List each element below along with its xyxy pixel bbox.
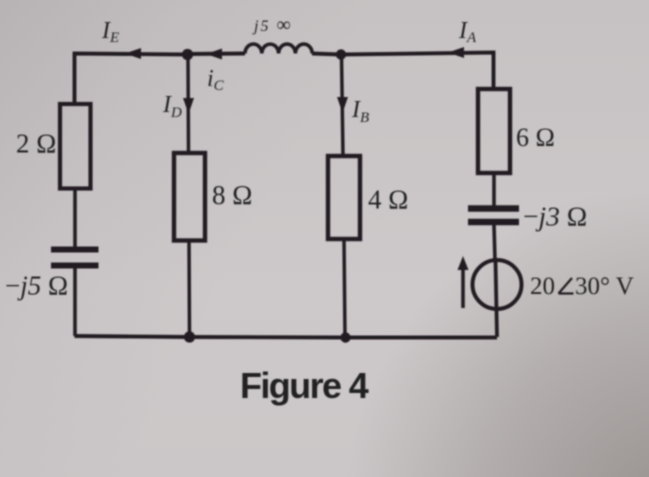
svg-text:Figure 4: Figure 4 [240,365,369,406]
svg-text:30° V: 30° V [575,273,634,300]
node: bottom node of 4-ohm branch [340,332,350,342]
source reference arrow (points up, left of source) [461,268,465,308]
wire: 2ohm to capacitor -j5 [73,189,77,248]
capacitor -j5 (left branch) [51,247,99,253]
svg-text:2 Ω: 2 Ω [16,129,56,159]
svg-text:8 Ω: 8 Ω [212,180,252,210]
node: top node of 8-ohm branch [182,49,193,60]
wire: through-source conductor [496,261,498,337]
wire: bottom rail [75,336,498,338]
svg-text:IB: IB [351,97,369,126]
resistor 6ohm (right branch) [478,89,510,173]
wire: 4-ohm branch top (node B down to resistor) [342,55,344,156]
resistor 4ohm [328,156,360,239]
resistor 2ohm (left branch) [60,104,91,189]
capacitor -j3 (right branch) [468,205,519,211]
current arrow I_E (points left on top rail) [125,48,141,59]
svg-text:−j5 Ω: −j5 Ω [5,271,68,301]
current arrow I_B (points down) [337,97,348,113]
wire: 8ohm resistor to bottom rail [187,241,191,338]
current arrow I_D (points down) [183,98,194,114]
wire: top rail left segment (node A area to top-left corner) [75,54,188,105]
svg-text:IA: IA [458,18,477,46]
svg-text:20: 20 [530,273,555,300]
wire: 4ohm resistor to bottom rail [344,239,345,337]
node: bottom node of 8-ohm branch [184,331,195,342]
wire: capacitor -j5 to bottom rail [73,268,77,336]
svg-text:6 Ω: 6 Ω [516,123,555,152]
current arrow I_C (points left toward node) [206,49,222,60]
svg-text:IE: IE [101,18,119,46]
node: top node of 4-ohm branch [336,49,346,59]
current arrow I_A (points left on top rail) [448,47,464,58]
source V1: AC voltage source 20/30 V (circle) [473,260,522,309]
wire: inductor right to node B, then to top-right corner [312,53,494,90]
svg-text:ID: ID [162,92,182,121]
wire: capacitor -j3 to source [494,225,495,261]
inductor L (top, between middle nodes) [245,44,312,53]
resistor 8ohm [174,153,205,241]
svg-text:4 Ω: 4 Ω [368,185,408,215]
wire: 6ohm to capacitor -j3 [492,173,496,206]
wire: top rail, node C to inductor left [188,52,246,56]
svg-text:−j3 Ω: −j3 Ω [523,201,587,232]
wire: 8-ohm branch top (node C down to resistor) [186,55,190,153]
svg-text:iC: iC [207,66,225,94]
svg-text:j5 ∞: j5 ∞ [252,14,293,36]
